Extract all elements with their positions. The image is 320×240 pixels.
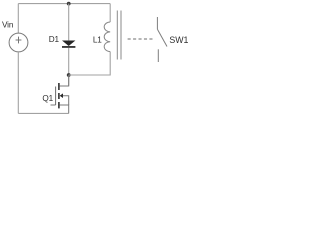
svg-text:Q1: Q1 [42, 94, 53, 103]
wire left drop to source top [17, 4, 19, 34]
switch SW1 blade [157, 29, 167, 46]
inductor L1 coil [104, 22, 110, 52]
switch SW1 bottom lead [157, 49, 159, 62]
wire top rail [18, 3, 110, 5]
transistor Q1 channel bar bottom [58, 102, 60, 108]
relay core line 2 [120, 11, 122, 60]
transistor Q1 channel bar middle [58, 93, 60, 99]
svg-text:D1: D1 [49, 35, 60, 44]
relay core line 1 [116, 11, 118, 60]
transistor Q1 gate bar [55, 87, 57, 106]
wire D1 cathode to drain node [68, 48, 70, 86]
wire source bottom to bottom rail [17, 52, 19, 114]
plus sign inside source [16, 37, 22, 44]
label D1 [49, 35, 60, 44]
node junction dot top rail [67, 2, 71, 6]
transistor Q1 body lead [63, 96, 69, 105]
transistor Q1 gate lead [51, 104, 56, 106]
voltage source V (Vin) circle [9, 33, 28, 52]
transistor Q1 channel bar top [58, 83, 60, 90]
label Vin [2, 20, 14, 29]
wire bottom rail [18, 112, 68, 114]
diode D1 cathode bar [62, 46, 75, 48]
diode D1 triangle [62, 41, 75, 47]
label SW1 [169, 35, 188, 45]
transistor Q1 source lead [60, 105, 69, 113]
wire top rail corner down to L1 top [109, 4, 111, 22]
label Q1 [42, 94, 53, 103]
wire drain node to L1 bottom [69, 52, 111, 75]
label L1 [93, 36, 102, 45]
mechanical linkage dashed line [128, 38, 155, 40]
transistor Q1 drain lead [60, 75, 69, 86]
wire D1 anode lead [68, 4, 70, 41]
node junction dot drain node [67, 73, 71, 77]
switch SW1 top lead [156, 17, 158, 29]
transistor Q1 body arrow [60, 93, 63, 98]
svg-text:L1: L1 [93, 36, 102, 45]
svg-text:SW1: SW1 [169, 35, 188, 45]
svg-text:Vin: Vin [2, 20, 14, 29]
